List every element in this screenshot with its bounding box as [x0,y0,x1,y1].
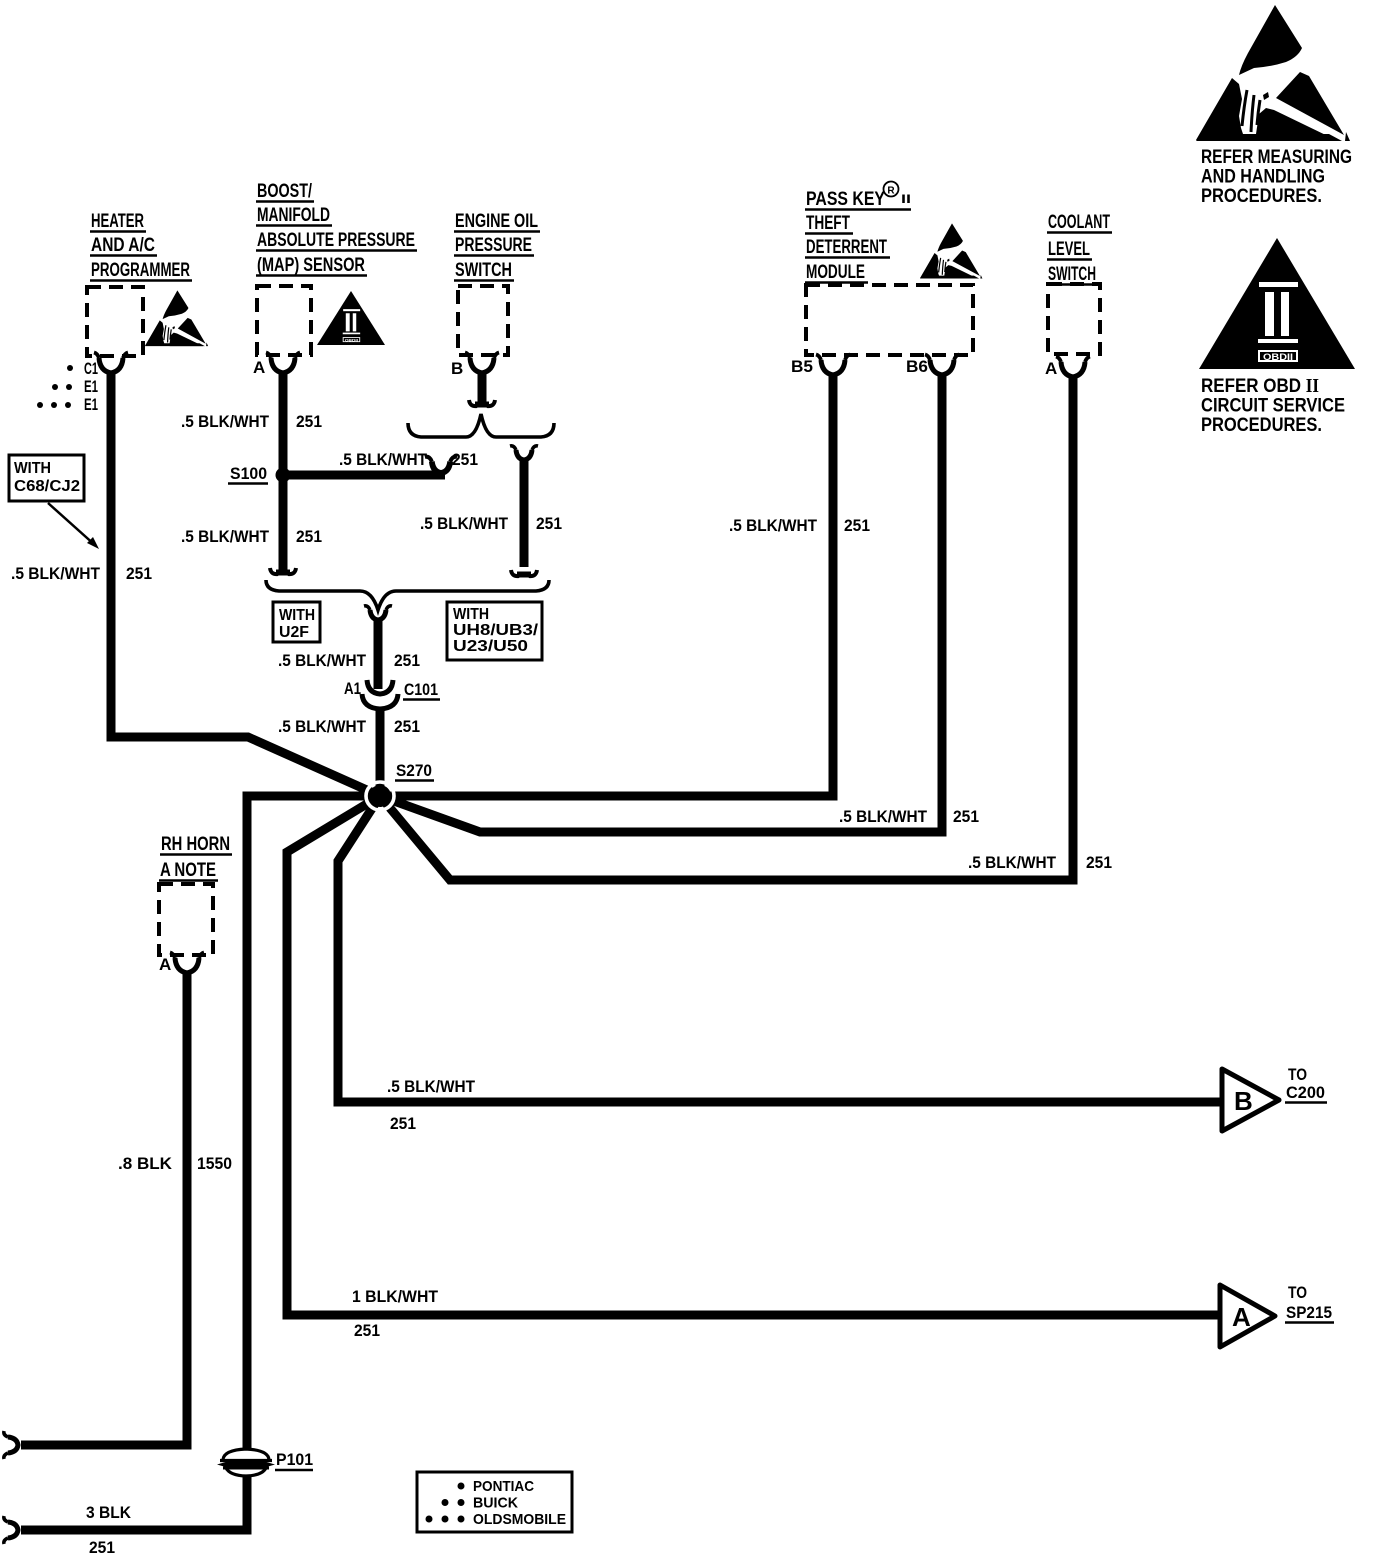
svg-text:.8 BLK: .8 BLK [118,1154,173,1173]
terminal end (below S100) [270,568,296,574]
svg-text:B6: B6 [906,357,928,376]
svg-text:MODULE: MODULE [806,262,865,283]
wire: B6 to S270 [380,376,942,832]
ESD handling warning symbol (large, top right) [1196,5,1350,141]
svg-text:251: 251 [1086,853,1112,872]
svg-text:C200: C200 [1286,1084,1325,1102]
svg-text:.5 BLK/WHT: .5 BLK/WHT [839,807,928,826]
svg-text:A1: A1 [344,679,361,698]
terminal end (3 BLK wire, left) [4,1516,18,1544]
svg-text:B: B [451,359,463,378]
svg-text:A: A [1232,1302,1251,1332]
terminal A (RH horn) [170,953,204,974]
svg-text:BOOST/: BOOST/ [257,181,313,202]
OBD II symbol (MAP) [317,291,385,345]
svg-text:PASS KEY: PASS KEY [806,189,885,210]
svg-text:WITH: WITH [279,607,315,624]
svg-text:WITH: WITH [14,460,51,477]
svg-text:251: 251 [354,1321,380,1340]
svg-text:C1: C1 [84,359,98,378]
destination triangle B to C200 [1222,1069,1279,1131]
callout box WITH C68/CJ2 [9,455,99,549]
svg-text:AND A/C: AND A/C [91,235,155,256]
terminal end (oil stub) [469,400,495,406]
svg-text:.5 BLK/WHT: .5 BLK/WHT [181,527,270,546]
svg-text:.5 BLK/WHT: .5 BLK/WHT [420,514,509,533]
svg-text:TO: TO [1288,1284,1307,1302]
svg-text:1550: 1550 [197,1154,232,1173]
svg-text:S100: S100 [230,464,267,483]
svg-text:251: 251 [89,1538,115,1557]
label: BOOST/MANIFOLD ABSOLUTE PRESSURE (MAP) SENSOR [257,181,415,276]
svg-text:251: 251 [844,516,870,535]
connector: MAP sensor (dashed) [257,286,311,355]
svg-text:U23/U50: U23/U50 [453,638,528,655]
svg-text:251: 251 [296,527,322,546]
svg-text:PRESSURE: PRESSURE [455,235,532,256]
terminal end (option right branch, bottom) [511,570,537,576]
svg-text:.5 BLK/WHT: .5 BLK/WHT [181,412,270,431]
svg-text:P101: P101 [276,1450,313,1469]
wire: merged option wire down to C101 [374,619,383,689]
svg-text:UH8/UB3/: UH8/UB3/ [453,622,539,639]
connector: engine oil pressure switch (dashed) [458,286,508,355]
svg-text:251: 251 [452,450,478,469]
svg-text:C101: C101 [404,680,438,699]
svg-text:1 BLK/WHT: 1 BLK/WHT [352,1287,439,1306]
svg-text:C68/CJ2: C68/CJ2 [14,478,80,495]
wire: MAP A to S100 and below [279,374,288,571]
svg-text:SWITCH: SWITCH [455,260,512,281]
svg-text:MANIFOLD: MANIFOLD [257,205,330,226]
svg-text:A NOTE: A NOTE [160,860,216,881]
svg-text:R: R [887,186,895,197]
svg-text:SP215: SP215 [1286,1304,1332,1322]
brace: options under oil switch [408,414,554,437]
brace: merge of option branches [266,580,549,610]
svg-text:.5 BLK/WHT: .5 BLK/WHT [729,516,818,535]
svg-text:.5 BLK/WHT: .5 BLK/WHT [278,651,367,670]
wire: heater C1 down and over to S270 [111,374,378,795]
svg-text:251: 251 [126,564,152,583]
svg-text:TO: TO [1288,1066,1307,1084]
svg-text:LEVEL: LEVEL [1048,239,1090,260]
svg-text:S270: S270 [396,761,432,780]
wire: P101 to 3 BLK ground lead [21,1477,247,1530]
svg-text:E1: E1 [84,395,98,414]
svg-text:HEATER: HEATER [91,211,144,232]
terminal end (RH horn wire, left) [4,1431,18,1459]
svg-text:ABSOLUTE PRESSURE: ABSOLUTE PRESSURE [257,230,415,251]
legend: make dots [417,1472,572,1532]
svg-text:ENGINE OIL: ENGINE OIL [455,211,538,232]
wire: S100 right branch [283,471,445,480]
wire: S270 left to P101 drop [247,796,380,1448]
svg-text:E1: E1 [84,377,98,396]
svg-text:.5 BLK/WHT: .5 BLK/WHT [278,717,367,736]
label: PASS KEY II THEFT DETERRENT MODULE [806,189,911,283]
connector: heater and A/C programmer (dashed) [87,287,143,356]
svg-text:PONTIAC: PONTIAC [473,1478,534,1495]
svg-text:A: A [253,358,265,377]
destination triangle A to SP215 [1220,1285,1275,1347]
svg-text:251: 251 [296,412,322,431]
svg-text:.5 BLK/WHT: .5 BLK/WHT [11,564,101,583]
terminal end (merged wire, top) [364,606,392,620]
wire stub below oil switch [478,374,487,403]
svg-text:WITH: WITH [453,606,489,623]
terminal A (MAP) [266,353,300,374]
wire: B5 to S270 [380,376,833,796]
svg-text:II: II [901,192,911,206]
svg-text:.5 BLK/WHT: .5 BLK/WHT [968,853,1057,872]
svg-text:3 BLK: 3 BLK [86,1503,132,1522]
terminal A (coolant) [1056,357,1090,378]
grommet P101 [217,1449,313,1476]
svg-text:(MAP) SENSOR: (MAP) SENSOR [257,255,365,276]
svg-text:251: 251 [394,717,420,736]
callout box WITH U2F [273,602,320,642]
connector: coolant level switch (dashed) [1048,284,1100,354]
svg-text:B: B [1234,1086,1253,1116]
svg-text:.5 BLK/WHT: .5 BLK/WHT [387,1077,476,1096]
svg-text:BUICK: BUICK [473,1495,518,1512]
wire: C101 to S270 [376,707,385,786]
wire: coolant switch A to S270 [380,378,1073,880]
wire: S270 to B destination (C200) [338,796,1221,1102]
terminal C1 [94,353,128,374]
svg-text:.5 BLK/WHT: .5 BLK/WHT [339,450,428,469]
svg-text:A: A [1045,359,1057,378]
svg-text:PROGRAMMER: PROGRAMMER [91,260,190,281]
svg-text:251: 251 [394,651,420,670]
svg-text:PROCEDURES.: PROCEDURES. [1201,414,1322,436]
wire: RH horn A down and left [21,973,187,1445]
terminal B6 [925,355,959,376]
connector: pass key theft deterrent module (dashed) [806,285,973,355]
svg-text:DETERRENT: DETERRENT [806,237,887,258]
note: refer OBD II circuit service procedures [1201,375,1345,436]
terminal B5 [816,355,850,376]
svg-text:RH HORN: RH HORN [161,834,230,855]
svg-text:OLDSMOBILE: OLDSMOBILE [473,1511,566,1528]
svg-text:COOLANT: COOLANT [1048,212,1110,233]
wire: option right branch [520,458,529,567]
label: RH HORN A NOTE [160,834,230,881]
wire: S270 to A destination (SP215) [287,796,1219,1315]
terminal B (oil switch) [465,353,499,374]
terminal end (S100 right) [425,457,457,473]
label: ENGINE OIL PRESSURE SWITCH [455,211,538,281]
label: HEATER AND A/C PROGRAMMER [91,211,190,281]
svg-text:B5: B5 [791,357,813,376]
label: COOLANT LEVEL SWITCH [1048,212,1110,285]
svg-text:U2F: U2F [279,624,309,641]
svg-text:251: 251 [953,807,979,826]
callout box WITH UH8/UB3/U23/U50 [447,602,542,660]
connector: RH horn (dashed) [159,884,213,955]
ESD symbol (heater) [145,290,208,346]
svg-text:THEFT: THEFT [806,213,850,234]
ESD symbol (pass key) [920,223,982,278]
svg-text:A: A [159,955,171,974]
svg-text:PROCEDURES.: PROCEDURES. [1201,185,1322,207]
note: refer measuring and handling procedures [1201,146,1352,207]
terminal end (option right branch, top) [510,446,538,460]
svg-text:251: 251 [536,514,562,533]
svg-text:SWITCH: SWITCH [1048,264,1096,285]
svg-text:251: 251 [390,1114,416,1133]
OBD II warning symbol (large, right) [1199,238,1355,369]
